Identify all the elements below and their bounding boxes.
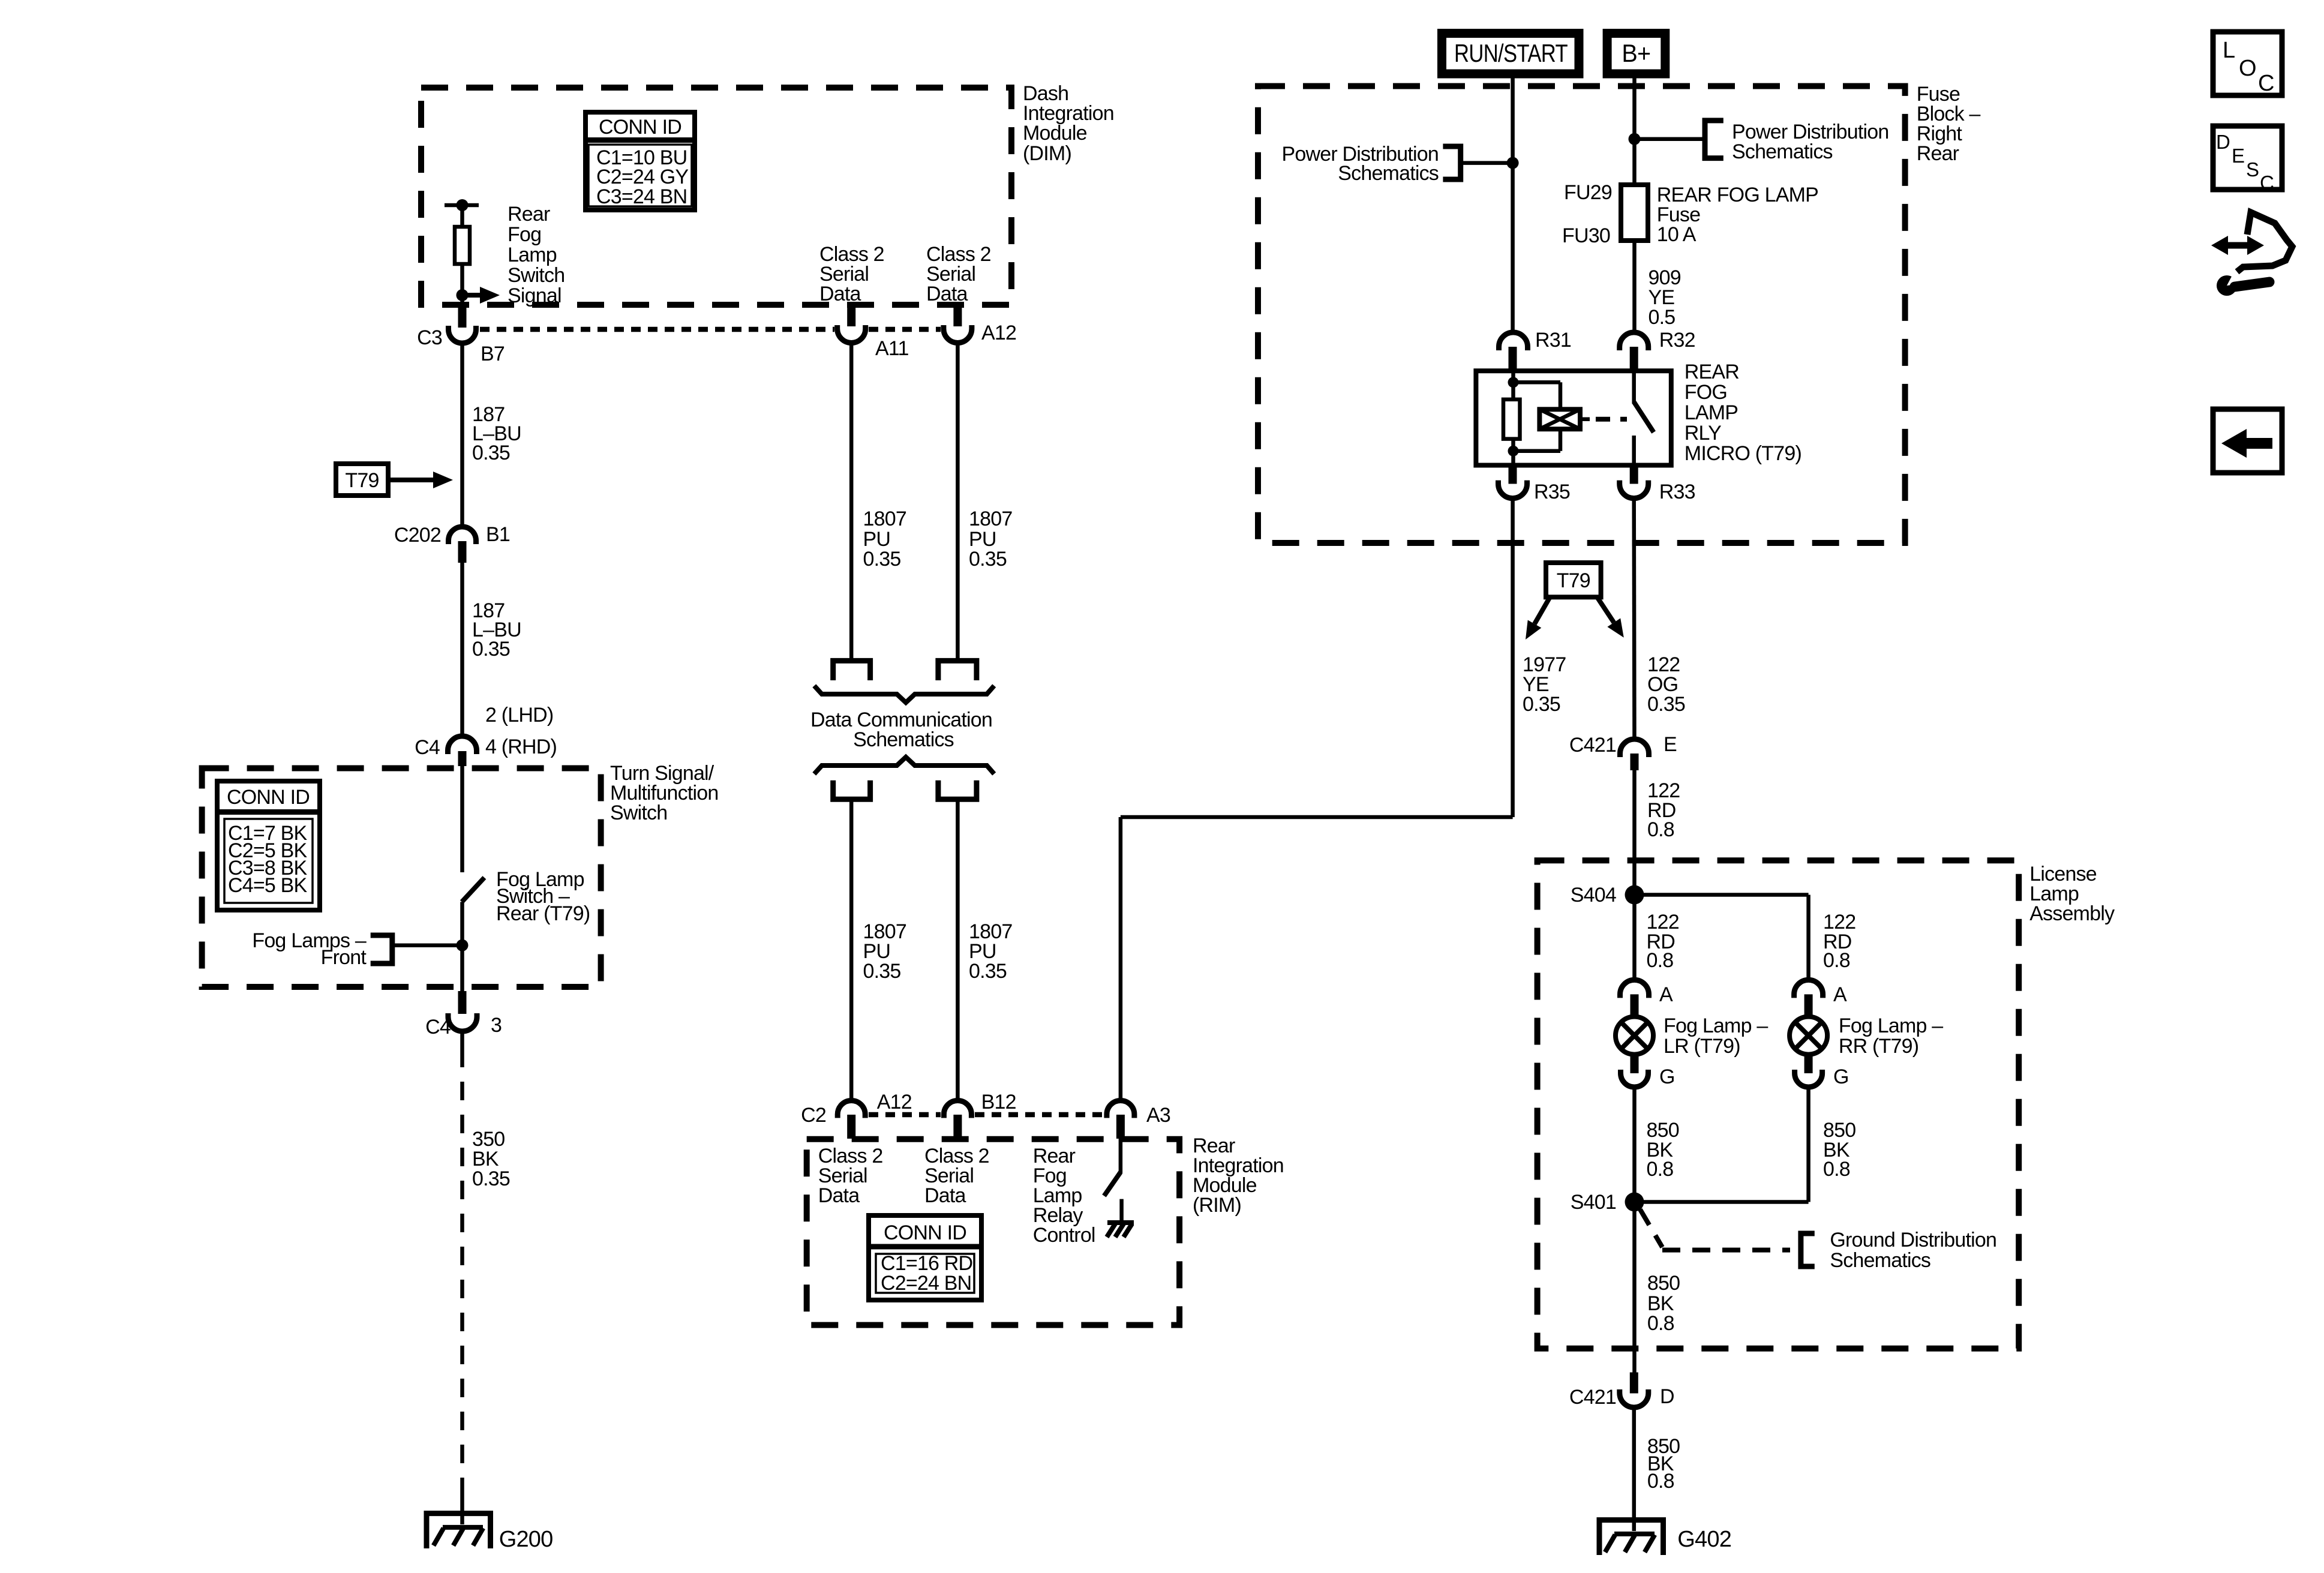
swap icon: double-headed arrow <box>2224 242 2251 249</box>
svg-text:(RIM): (RIM) <box>1193 1194 1241 1217</box>
RIM internal switch to ground <box>1119 1139 1123 1173</box>
svg-text:O: O <box>2239 56 2256 81</box>
brace up <box>814 757 994 774</box>
T79 callout box with arrow <box>336 464 388 496</box>
connector A right <box>1794 980 1823 998</box>
svg-text:Schematics: Schematics <box>1338 162 1439 185</box>
wire <box>460 205 464 227</box>
svg-text:T79: T79 <box>1557 569 1590 592</box>
RIM chassis ground symbol <box>1107 1220 1134 1225</box>
RIGHTMARGIN <box>202 82 1114 1552</box>
svg-text:Module: Module <box>1023 122 1087 145</box>
connector G right <box>1804 1052 1813 1073</box>
C2 connector <box>837 1101 865 1118</box>
connector G left <box>1631 1052 1639 1073</box>
svg-text:0.8: 0.8 <box>1647 1470 1674 1493</box>
junction to power distribution (left) <box>1507 157 1519 169</box>
svg-text:CONN ID: CONN ID <box>599 116 681 139</box>
svg-text:FOG: FOG <box>1685 381 1727 404</box>
wire 850 BK to G402 <box>1632 1407 1637 1531</box>
off-page cap left <box>833 661 870 680</box>
wire 122 RD 0.8 <box>1632 770 1637 895</box>
svg-text:C2=24 BN: C2=24 BN <box>881 1272 971 1295</box>
C3 connector B7 <box>449 326 476 343</box>
svg-text:D: D <box>1660 1385 1674 1408</box>
splice S404 <box>1625 885 1644 905</box>
branch wire to right lamp <box>1635 893 1809 897</box>
ground G200 <box>460 1496 464 1524</box>
svg-text:RR (T79): RR (T79) <box>1839 1035 1918 1058</box>
svg-text:S401: S401 <box>1571 1191 1616 1214</box>
svg-text:C: C <box>2260 172 2274 194</box>
svg-text:A11: A11 <box>875 337 909 360</box>
svg-text:0.5: 0.5 <box>1649 306 1676 329</box>
svg-text:S: S <box>2246 158 2259 181</box>
A3 wire up and over to relay <box>1119 817 1123 1101</box>
wire <box>460 264 464 308</box>
svg-text:0.8: 0.8 <box>1647 1312 1674 1335</box>
MIDSECTION <box>1258 34 1980 895</box>
svg-text:C2: C2 <box>801 1104 826 1127</box>
Dash Integration Module (DIM) dashed box <box>421 88 1011 305</box>
fog lamp RR bulb <box>1789 1017 1827 1055</box>
left branch wire <box>1632 895 1637 980</box>
relay box REAR FOG LAMP RLY MICRO <box>1476 371 1671 465</box>
RUN/START wire <box>1511 77 1515 332</box>
C421 E connector <box>1620 739 1649 757</box>
svg-text:B+: B+ <box>1622 39 1650 67</box>
svg-text:CONN ID: CONN ID <box>884 1221 966 1244</box>
svg-text:E: E <box>2232 145 2244 167</box>
svg-text:C202: C202 <box>394 524 441 547</box>
T79 callout with two arrows <box>1546 563 1601 597</box>
svg-text:C4: C4 <box>425 1016 451 1038</box>
svg-text:REAR: REAR <box>1685 361 1739 383</box>
svg-text:10 A: 10 A <box>1657 223 1697 246</box>
svg-text:A3: A3 <box>1146 1104 1170 1127</box>
svg-text:Switch: Switch <box>508 264 565 287</box>
svg-text:R31: R31 <box>1535 329 1571 352</box>
Turn Signal/Multifunction Switch dashed box <box>202 769 601 987</box>
back-arrow icon box <box>2213 409 2282 473</box>
svg-text:3: 3 <box>491 1014 502 1037</box>
svg-text:0.35: 0.35 <box>472 1167 510 1190</box>
svg-text:A: A <box>1659 983 1673 1006</box>
svg-text:0.35: 0.35 <box>969 548 1007 571</box>
svg-text:Switch: Switch <box>610 801 667 824</box>
svg-text:Rear (T79): Rear (T79) <box>496 902 590 925</box>
svg-text:2 (LHD): 2 (LHD) <box>485 704 553 727</box>
svg-text:0.35: 0.35 <box>863 548 901 571</box>
R35 connector <box>1509 466 1517 484</box>
svg-text:Schematics: Schematics <box>1732 140 1833 163</box>
RIM CONN ID table <box>869 1215 981 1300</box>
svg-text:1807: 1807 <box>969 508 1012 530</box>
svg-text:R35: R35 <box>1534 481 1570 503</box>
svg-text:Schematics: Schematics <box>853 728 954 751</box>
svg-text:LAMP: LAMP <box>1685 401 1738 424</box>
svg-text:RUN/START: RUN/START <box>1454 39 1568 67</box>
svg-text:Fog Lamp –: Fog Lamp – <box>1839 1014 1943 1037</box>
wire 350 BK dashed to ground <box>460 1031 464 1049</box>
svg-text:C4: C4 <box>415 736 440 759</box>
svg-text:0.35: 0.35 <box>1523 693 1560 716</box>
svg-text:Control: Control <box>1033 1224 1095 1247</box>
svg-text:0.35: 0.35 <box>472 442 510 464</box>
A3 connector <box>1107 1101 1134 1118</box>
svg-text:Fog: Fog <box>508 223 541 246</box>
svg-text:0.35: 0.35 <box>863 960 901 983</box>
Fuse Block - Right Rear dashed box <box>1258 86 1905 544</box>
svg-text:Data: Data <box>926 283 968 305</box>
wire 909 YE 0.5 <box>1632 241 1637 332</box>
svg-text:Signal: Signal <box>508 284 562 307</box>
svg-text:E: E <box>1664 733 1677 756</box>
dotted harness line C3 to A12 <box>480 327 834 332</box>
svg-text:C: C <box>2258 71 2274 96</box>
svg-text:Rear: Rear <box>1917 142 1959 165</box>
fog lamp LR bulb <box>1616 1017 1653 1055</box>
svg-text:T79: T79 <box>345 469 379 492</box>
ground G402 <box>1599 1520 1664 1555</box>
svg-text:G402: G402 <box>1677 1527 1731 1552</box>
svg-text:G: G <box>1833 1065 1849 1088</box>
junction node with signal arrow <box>457 289 469 301</box>
wires 850 BK 0.8 down to S401 <box>1632 1087 1637 1202</box>
svg-text:L: L <box>2223 38 2235 63</box>
wire 1807 PU lower left <box>849 799 854 1100</box>
svg-text:R33: R33 <box>1659 481 1695 503</box>
svg-text:Data: Data <box>818 1184 860 1207</box>
svg-text:1807: 1807 <box>863 508 906 530</box>
svg-text:0.8: 0.8 <box>1647 818 1674 841</box>
svg-text:0.35: 0.35 <box>472 638 510 661</box>
svg-text:Rear: Rear <box>508 203 550 226</box>
DIM CONN ID table <box>585 112 695 210</box>
Turn switch CONN ID table <box>217 781 320 910</box>
svg-text:C421: C421 <box>1569 734 1616 757</box>
R33 connector <box>1630 466 1638 484</box>
svg-text:(DIM): (DIM) <box>1023 142 1071 165</box>
svg-text:G200: G200 <box>499 1527 553 1552</box>
svg-text:Assembly: Assembly <box>2029 902 2115 925</box>
svg-text:C4=5 BK: C4=5 BK <box>228 874 308 897</box>
B+ power feed box <box>1607 34 1665 74</box>
svg-text:CONN ID: CONN ID <box>227 786 310 809</box>
wire 187 L-BU <box>460 343 464 527</box>
svg-text:Schematics: Schematics <box>1830 1249 1930 1272</box>
svg-text:A12: A12 <box>981 322 1016 344</box>
wire 1807 PU upper right <box>956 343 960 661</box>
svg-text:LR (T79): LR (T79) <box>1664 1035 1740 1058</box>
svg-text:850: 850 <box>1647 1272 1680 1295</box>
mechanical link dashes <box>1580 417 1590 421</box>
License Lamp Assembly dashed box <box>1538 860 2019 1349</box>
svg-text:B1: B1 <box>486 523 510 546</box>
wire 187 L-BU lower <box>460 563 464 736</box>
swap/parts icon: arrow-loop outline <box>2237 212 2292 272</box>
Rear Integration Module dashed box <box>807 1139 1179 1325</box>
wire from R35 down to corner <box>1511 499 1515 817</box>
svg-text:Data: Data <box>819 283 861 305</box>
C3 connector stub <box>458 307 467 328</box>
svg-text:FU29: FU29 <box>1564 181 1612 204</box>
svg-text:FU30: FU30 <box>1562 224 1610 247</box>
relay switch <box>1632 371 1636 404</box>
splice S401 <box>1625 1193 1644 1212</box>
wire 1807 PU upper left <box>849 343 854 661</box>
brace down <box>814 686 994 703</box>
svg-text:Data: Data <box>924 1184 966 1207</box>
C202 connector B1 <box>449 527 476 544</box>
relay coil branch <box>1511 371 1515 400</box>
wire into switch <box>460 766 464 872</box>
DESC icon box <box>2213 126 2282 190</box>
svg-text:0.8: 0.8 <box>1823 1158 1850 1181</box>
connector A left <box>1620 980 1649 998</box>
svg-text:A12: A12 <box>877 1091 912 1113</box>
svg-text:4 (RHD): 4 (RHD) <box>485 736 557 758</box>
svg-text:C421: C421 <box>1569 1386 1616 1409</box>
off-page cup right <box>938 781 977 800</box>
off-page cap right <box>938 661 977 680</box>
wire below blade with junction <box>460 902 464 991</box>
A11 connector <box>847 306 855 326</box>
rear fog lamp switch signal: node with bar <box>445 203 479 208</box>
RUN/START power feed box <box>1442 34 1580 74</box>
B12 connector <box>944 1101 971 1118</box>
svg-text:RLY: RLY <box>1685 422 1721 445</box>
A12 connector <box>953 306 962 326</box>
svg-text:0.35: 0.35 <box>969 960 1007 983</box>
C421 D connector <box>1630 1373 1638 1394</box>
svg-text:C3: C3 <box>417 326 442 349</box>
wire from R33 down <box>1632 499 1636 739</box>
svg-text:C3=24 BN: C3=24 BN <box>596 185 687 208</box>
svg-text:A: A <box>1833 983 1847 1006</box>
svg-text:0.8: 0.8 <box>1823 949 1850 972</box>
svg-text:B12: B12 <box>981 1091 1016 1113</box>
RIGHTSECTION <box>1538 860 2115 1555</box>
svg-text:0.35: 0.35 <box>1647 693 1685 716</box>
dashed link to ground distribution <box>1640 1209 1662 1247</box>
fog lamp switch blade <box>462 878 485 902</box>
relay coil box with X <box>1539 409 1580 429</box>
svg-text:R32: R32 <box>1659 329 1695 352</box>
swap icon: wrench <box>2217 275 2237 296</box>
svg-text:G: G <box>1659 1065 1675 1088</box>
svg-text:0.8: 0.8 <box>1647 1158 1674 1181</box>
C4 pin 3 connector <box>458 991 467 1014</box>
R32 connector <box>1620 332 1649 350</box>
dotted harness line C2-B12-A3 <box>869 1112 941 1118</box>
svg-text:S404: S404 <box>1571 884 1616 906</box>
svg-text:D: D <box>2216 131 2230 153</box>
wire 1807 PU lower right <box>956 799 960 1100</box>
LEFTSECTION <box>801 243 1512 1325</box>
R31 connector <box>1499 332 1528 350</box>
svg-text:Fog Lamp –: Fog Lamp – <box>1664 1014 1768 1037</box>
svg-text:Front: Front <box>321 946 367 969</box>
svg-text:B7: B7 <box>481 343 505 365</box>
svg-text:0.8: 0.8 <box>1647 949 1674 972</box>
fuse FU29/FU30 REAR FOG LAMP 10A <box>1621 185 1648 241</box>
junction to power distribution (right) <box>1629 133 1641 145</box>
svg-text:Ground Distribution: Ground Distribution <box>1830 1229 1996 1251</box>
off-page cup left <box>833 781 870 800</box>
switch-signal resistor element <box>455 227 470 264</box>
LOC icon box <box>2213 32 2282 95</box>
wire 850 BK below S401 <box>1632 1202 1637 1373</box>
svg-text:Lamp: Lamp <box>508 244 557 266</box>
B+ wire <box>1632 77 1637 185</box>
svg-text:MICRO (T79): MICRO (T79) <box>1685 442 1801 465</box>
